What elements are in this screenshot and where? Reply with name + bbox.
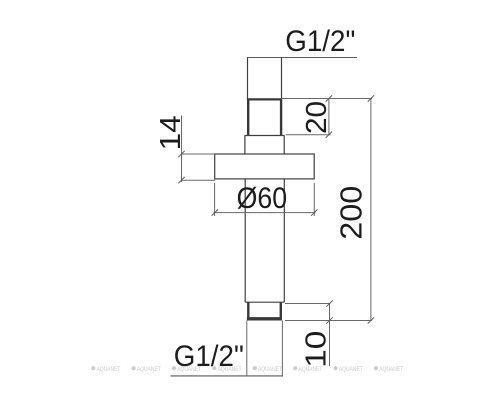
collar top line [245,135,285,137]
svg-text:10: 10 [301,331,333,368]
dim D60 right extension [313,183,315,216]
svg-text:AQUANET: AQUANET [137,366,161,373]
dim D60 tick left [212,209,218,215]
svg-text:AQUANET: AQUANET [96,366,120,373]
dim 10 tick top [326,300,332,306]
dim 20 line [328,99,330,136]
dim 10 line [329,304,331,367]
dim 20 tick bottom [326,132,332,138]
pipe upper section left wire [247,58,249,100]
dim D60 left extension [214,183,216,216]
flange rect [215,154,315,179]
watermark row AQUANET [91,366,403,373]
collar right edge [283,136,285,155]
top G1/2 leader line [247,57,357,59]
svg-text:20: 20 [301,101,333,134]
dim 10 upper extension [285,303,331,305]
collar left edge [244,136,246,155]
bottom thread extension right wire [281,321,283,376]
dim 200 tick top [368,95,374,101]
dim 14 tick lower [178,177,184,183]
shared top extension wire [282,98,373,100]
top thread cap [247,98,282,100]
lower pipe left wire [244,179,246,302]
dim 14 line [181,116,183,183]
shared bottom extension wire [285,320,372,322]
svg-text:AQUANET: AQUANET [258,366,282,373]
svg-text:200: 200 [333,186,368,240]
bottom G1/2 leader line [171,375,284,377]
dim 10 tick bottom [326,317,332,323]
svg-text:G1/2": G1/2" [174,340,244,373]
bottom thread left edge [247,302,249,319]
svg-text:AQUANET: AQUANET [339,366,363,373]
dim 20 lower extension [286,134,331,136]
lower pipe right wire [283,179,285,302]
svg-text:Ø60: Ø60 [237,182,288,215]
dim 14 upper extension [181,153,215,155]
dim D60 tick right [311,209,317,215]
pipe bottom shoulder [245,301,284,303]
bottom thread extension left wire [246,321,248,376]
dim D60 line [214,212,316,214]
dim 14 tick upper [178,151,184,157]
svg-text:G1/2": G1/2" [285,25,355,58]
dim 200 line [370,99,372,321]
svg-text:AQUANET: AQUANET [379,366,403,373]
bottom thread cap [247,317,282,320]
dim 20 tick top [326,95,332,101]
dim 14 lower extension [181,179,215,181]
pipe upper section right wire [281,58,283,100]
dim 200 tick bottom [368,317,374,323]
bottom thread right edge [280,302,282,319]
svg-text:14: 14 [155,115,187,150]
top thread left edge [247,99,249,135]
top thread right edge [280,99,282,135]
